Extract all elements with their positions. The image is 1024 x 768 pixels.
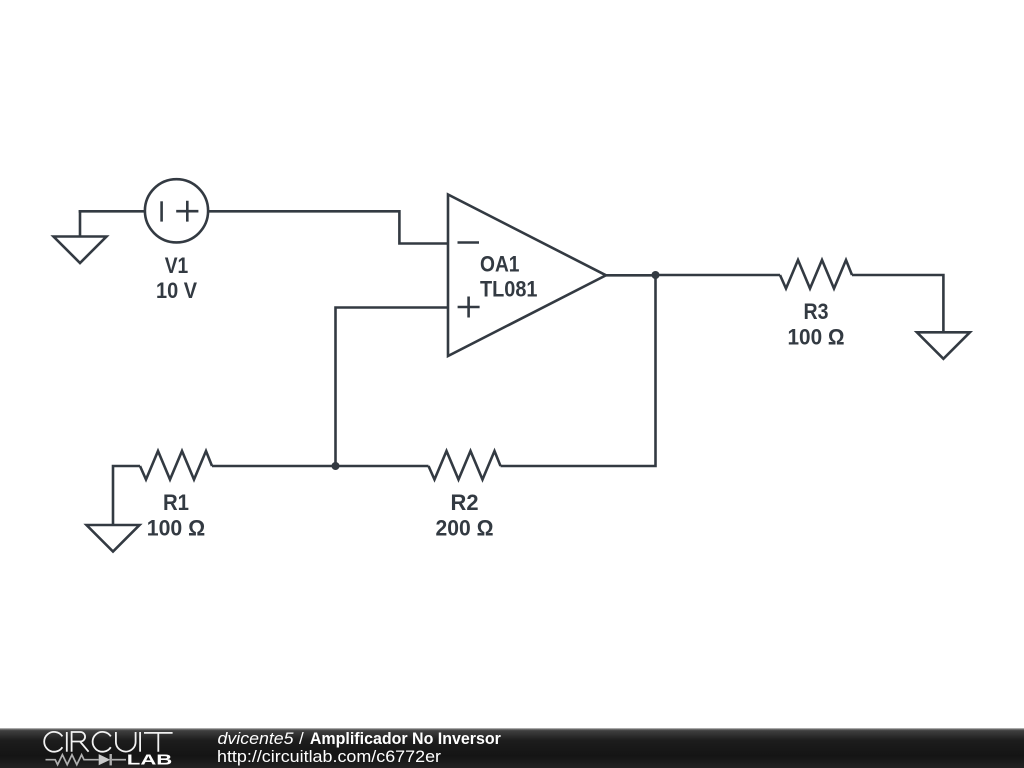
svg-text:Amplificador No Inversor: Amplificador No Inversor: [310, 729, 501, 748]
resistor R2: [429, 451, 501, 480]
svg-text:10 V: 10 V: [156, 278, 197, 303]
svg-text:TL081: TL081: [480, 277, 538, 302]
svg-text:/: /: [299, 729, 304, 748]
ground (right, R3): [917, 332, 970, 359]
svg-text:200 Ω: 200 Ω: [436, 515, 494, 540]
wire R3 to ground: [852, 275, 943, 332]
op-amp OA1: [448, 195, 606, 357]
svg-text:OA1: OA1: [480, 252, 520, 277]
svg-text:dvicente5: dvicente5: [218, 729, 295, 748]
svg-text:100 Ω: 100 Ω: [147, 515, 206, 540]
ground (top-left, V1 negative): [54, 210, 107, 263]
voltage source V1: [145, 179, 208, 242]
svg-text:LAB: LAB: [127, 752, 173, 768]
svg-text:R3: R3: [804, 299, 829, 324]
CircuitLab logo: resistor-diode squiggle: [46, 754, 127, 765]
wire node B down to R2: [501, 274, 656, 466]
wire junction A to R1: [212, 465, 336, 468]
CircuitLab logo: CIRCUIT wordmark: [44, 732, 172, 752]
svg-text:R2: R2: [451, 490, 479, 515]
wire R1 to ground: [113, 466, 140, 525]
svg-text:V1: V1: [165, 253, 189, 278]
wire node B to resistor R3: [656, 274, 781, 277]
svg-text:100 Ω: 100 Ω: [788, 324, 845, 349]
svg-text:http://circuitlab.com/c6772er: http://circuitlab.com/c6772er: [217, 747, 441, 766]
wire V1 to op-amp inverting input: [208, 211, 448, 243]
wire junction A to op-amp non-inverting input: [336, 308, 449, 467]
wire op-amp output to node B: [606, 274, 656, 277]
resistor R1: [140, 451, 212, 480]
footer bar: [0, 728, 1024, 768]
ground (bottom-left, R1): [87, 525, 140, 552]
svg-text:R1: R1: [163, 490, 189, 515]
junction A: [332, 462, 340, 470]
wire R2 to junction A: [336, 465, 429, 468]
wire ground to V1: [79, 210, 144, 213]
CircuitLab logo: diode triangle: [99, 754, 111, 765]
resistor R3: [780, 260, 852, 289]
junction node B: [652, 271, 660, 279]
